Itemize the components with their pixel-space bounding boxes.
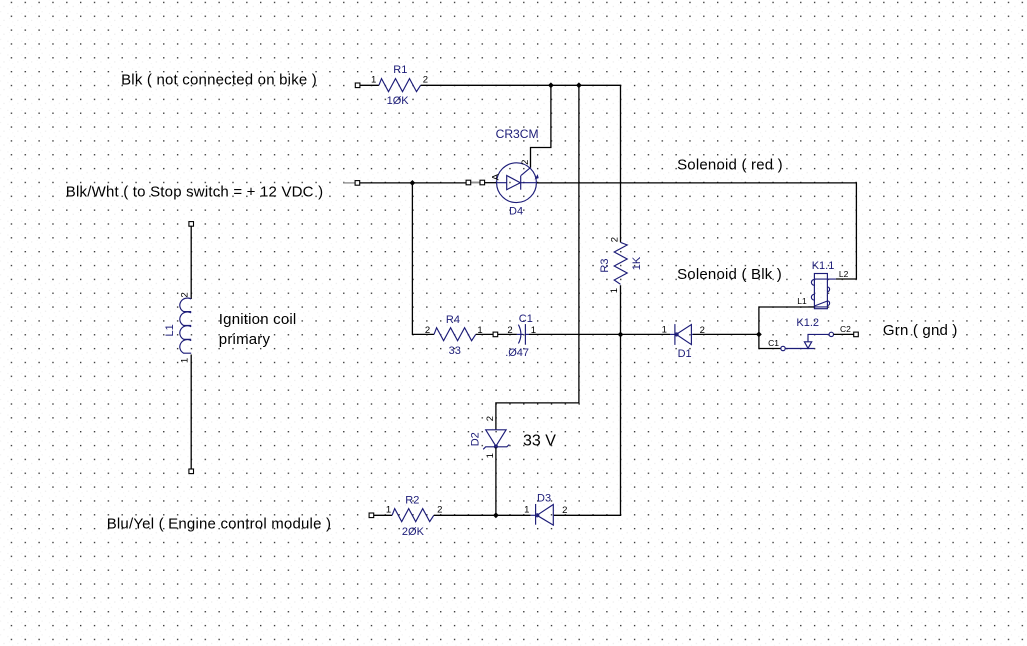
- wire top net R1 to R3: [421, 85, 621, 242]
- svg-text:.Ø47: .Ø47: [505, 347, 529, 359]
- svg-text:1: 1: [485, 453, 496, 458]
- svg-text:D4: D4: [509, 206, 523, 218]
- svg-text:1: 1: [371, 75, 376, 86]
- wire contact C2 to port: [834, 333, 854, 335]
- svg-text:primary: primary: [219, 331, 271, 348]
- terminal square link right: [480, 180, 485, 185]
- svg-text:2: 2: [180, 292, 191, 297]
- wire junction down to contact C1: [759, 334, 781, 348]
- svg-text:R1: R1: [393, 64, 407, 76]
- svg-text:2ØK: 2ØK: [402, 526, 425, 538]
- svg-text:L1: L1: [797, 296, 807, 306]
- wire gray stub left of port: [343, 182, 355, 184]
- node junction top net - gate branch: [548, 82, 554, 88]
- terminal square R1 pin1 port: [355, 83, 360, 88]
- svg-text:K1.2: K1.2: [796, 317, 819, 329]
- svg-text:Blk ( not connected on bike ): Blk ( not connected on bike ): [121, 72, 317, 89]
- svg-text:CR3CM: CR3CM: [496, 127, 539, 141]
- svg-text:1K: 1K: [631, 256, 643, 270]
- svg-text:Grn ( gnd ): Grn ( gnd ): [883, 322, 958, 339]
- svg-text:2: 2: [609, 237, 620, 242]
- svg-text:L2: L2: [839, 269, 849, 279]
- svg-text:1: 1: [180, 358, 191, 363]
- svg-text:C1: C1: [519, 313, 533, 325]
- wire SCR cathode to relay coil L2: [536, 183, 856, 279]
- node junction relay branch: [756, 332, 762, 338]
- node junction Blk/Wht - R4 branch: [410, 180, 416, 186]
- svg-text:1: 1: [609, 288, 620, 293]
- svg-text:1: 1: [524, 505, 529, 516]
- terminal square R4/C1 port: [493, 332, 498, 337]
- svg-text:K1.1: K1.1: [812, 260, 835, 272]
- svg-text:2: 2: [700, 325, 705, 336]
- wire D1 to relay junction: [693, 333, 759, 335]
- resistor R3: [614, 242, 627, 284]
- svg-text:Solenoid ( red ): Solenoid ( red ): [677, 157, 783, 174]
- node junction top net - zener branch: [576, 82, 582, 88]
- node junction main net at R3: [618, 332, 624, 338]
- svg-text:33: 33: [449, 345, 461, 357]
- svg-text:Blk/Wht ( to Stop switch = + 1: Blk/Wht ( to Stop switch = + 12 VDC ): [66, 183, 324, 200]
- svg-text:2: 2: [423, 75, 428, 86]
- wire gate feed from top net: [531, 85, 551, 167]
- svg-text:D1: D1: [678, 348, 692, 360]
- wire zener feed from top net: [496, 85, 579, 429]
- svg-text:Blu/Yel ( Engine control modul: Blu/Yel ( Engine control module ): [107, 515, 332, 532]
- wire branch down to R4: [412, 183, 434, 335]
- svg-text:1ØK: 1ØK: [387, 95, 410, 107]
- zener diode D2: [483, 430, 509, 450]
- terminal square L1 bottom port: [189, 469, 194, 474]
- wire C1 to D1: [529, 333, 670, 335]
- svg-text:2: 2: [507, 325, 512, 336]
- svg-text:1: 1: [386, 504, 391, 515]
- svg-text:2: 2: [520, 160, 531, 165]
- relay contact K1.2: [781, 332, 834, 351]
- resistor R4: [434, 328, 476, 341]
- svg-text:D3: D3: [537, 493, 551, 505]
- diode D3: [531, 504, 554, 525]
- wire L1 top lead: [190, 226, 192, 299]
- terminal square R2 pin1 port: [369, 513, 374, 518]
- svg-text:2: 2: [425, 325, 430, 336]
- SCR D4 CR3CM: [497, 163, 539, 203]
- wire into SCR anode: [485, 182, 497, 184]
- svg-text:L1: L1: [164, 324, 176, 336]
- svg-text:2: 2: [485, 416, 496, 421]
- wire R2 left lead: [374, 514, 392, 516]
- wire R3 bottom riser to D3: [554, 285, 621, 515]
- resistor R2: [392, 509, 434, 522]
- wire port to C1: [498, 333, 517, 335]
- svg-text:D2: D2: [469, 432, 481, 446]
- svg-text:33 V: 33 V: [523, 433, 556, 450]
- wire R4 to port square: [476, 333, 493, 335]
- svg-text:R3: R3: [599, 259, 611, 273]
- svg-text:2: 2: [562, 505, 567, 516]
- capacitor C1: [517, 324, 529, 345]
- svg-text:R4: R4: [446, 314, 460, 326]
- svg-text:R2: R2: [405, 495, 419, 507]
- wire R1 left lead: [360, 84, 379, 86]
- svg-text:C1: C1: [768, 338, 779, 348]
- svg-text:Ignition coil: Ignition coil: [219, 311, 297, 328]
- wire gray link between squares: [469, 182, 482, 184]
- resistor R1: [379, 79, 421, 92]
- svg-text:A: A: [491, 173, 502, 180]
- relay coil K1.1: [808, 274, 836, 309]
- diode D1: [670, 324, 693, 345]
- wire L1 bottom lead: [190, 355, 192, 470]
- wire R2 to D3: [434, 514, 531, 516]
- terminal square Grn port: [854, 332, 859, 337]
- terminal square L1 top port: [189, 222, 194, 227]
- svg-text:Solenoid ( Blk ): Solenoid ( Blk ): [677, 266, 782, 283]
- terminal square link left: [466, 180, 471, 185]
- inductor L1 ignition coil: [180, 298, 191, 353]
- wire Blk/Wht to link squares: [360, 182, 467, 184]
- svg-text:2: 2: [437, 504, 442, 515]
- wire zener cathode to bottom net: [495, 447, 497, 515]
- svg-text:C2: C2: [840, 324, 851, 334]
- wire junction up to coil pin L1: [759, 307, 815, 334]
- terminal square Blk/Wht port: [355, 181, 360, 186]
- node junction bottom net at D2: [493, 512, 499, 518]
- svg-text:1: 1: [662, 324, 667, 335]
